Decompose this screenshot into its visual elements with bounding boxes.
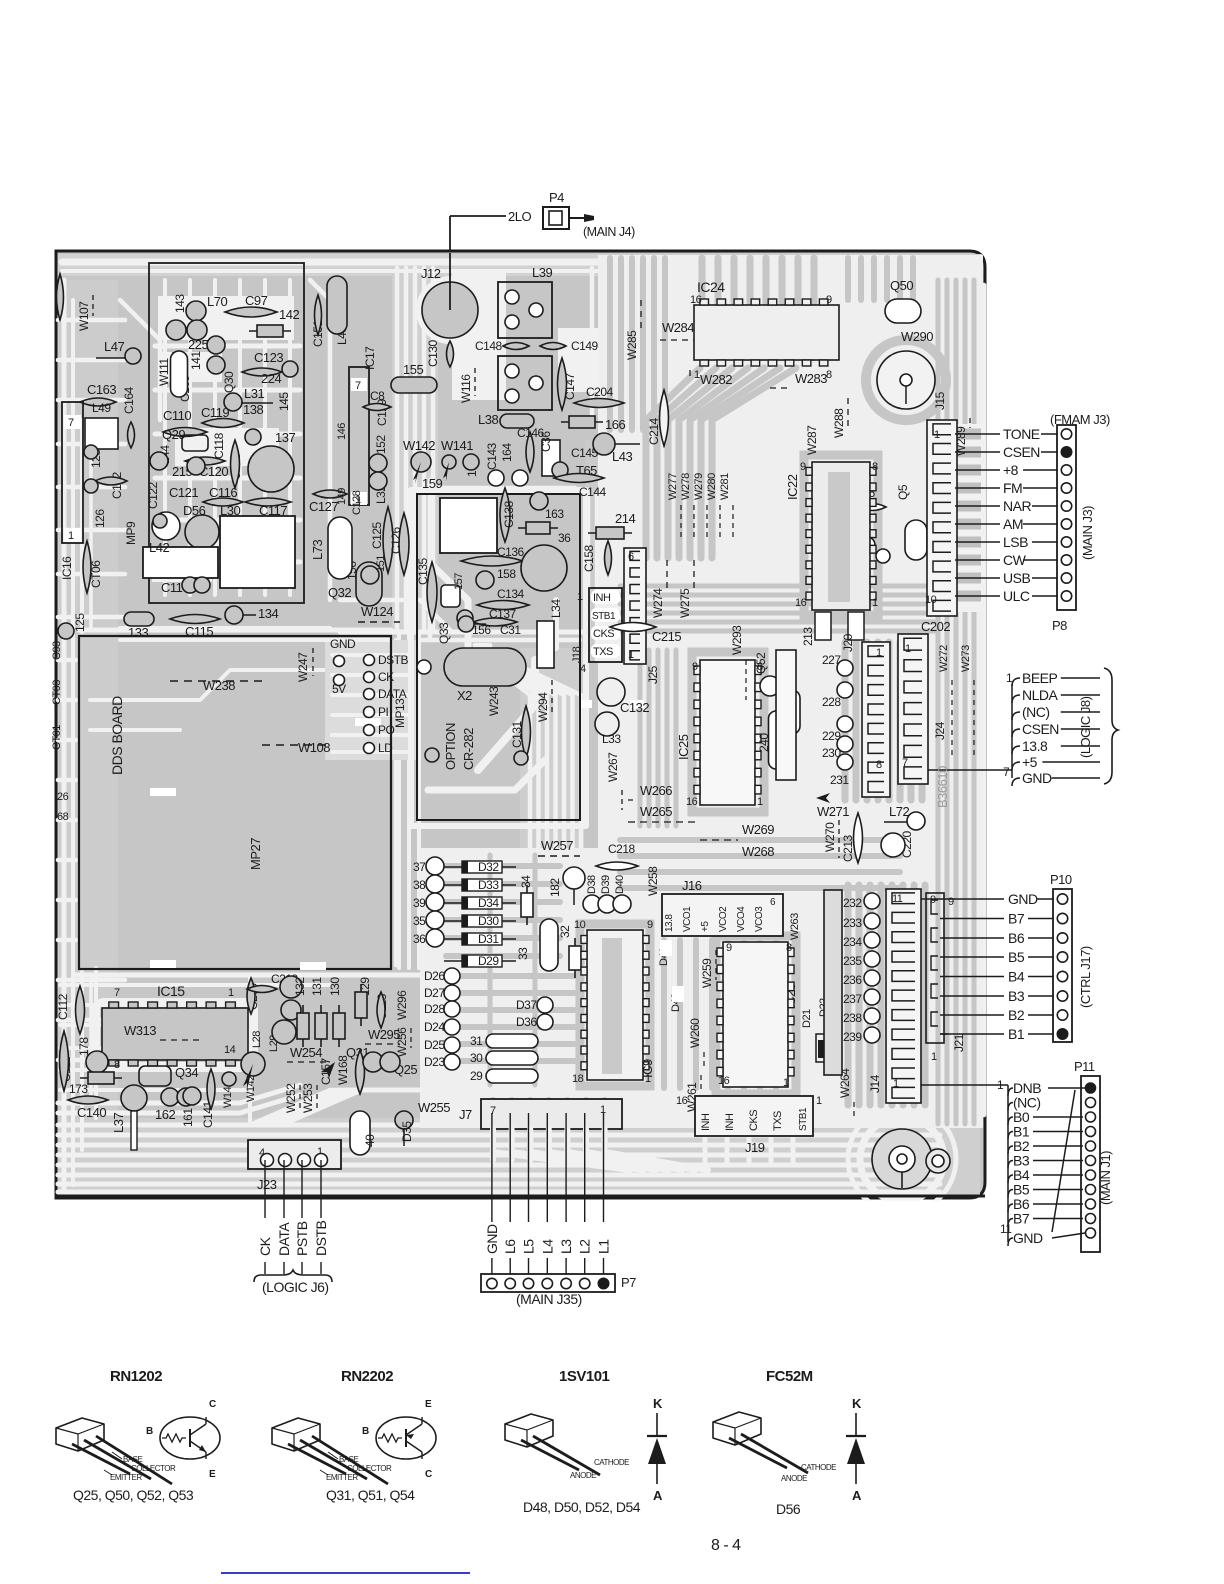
capacitor left edge [57,274,64,320]
svg-text:W313: W313 [124,1023,156,1038]
svg-text:X2: X2 [457,688,472,703]
svg-text:VCO4: VCO4 [736,906,747,932]
svg-text:C128: C128 [351,490,363,515]
resistor block [776,650,796,780]
svg-text:232: 232 [843,896,862,910]
svg-text:C134: C134 [497,587,525,601]
svg-text:L38: L38 [478,412,498,427]
svg-text:C132: C132 [620,700,649,715]
svg-text:39: 39 [413,896,426,910]
svg-text:C137: C137 [489,607,517,621]
wire P11 to board [960,1084,1008,1086]
svg-text:13.8: 13.8 [664,914,675,932]
svg-text:FC52M: FC52M [766,1368,813,1385]
svg-text:NAR: NAR [1003,498,1031,514]
svg-text:B1: B1 [1008,1026,1025,1042]
svg-text:7: 7 [355,380,361,392]
svg-text:D38: D38 [586,875,598,894]
diode D30 [444,920,516,922]
svg-text:CSEN: CSEN [1022,721,1059,737]
svg-text:W278: W278 [680,473,692,500]
svg-text:131: 131 [310,977,324,996]
svg-text:+5: +5 [1022,754,1038,770]
svg-text:J25: J25 [646,665,660,684]
svg-text:INH: INH [700,1113,712,1131]
transistor D56 body [185,515,219,549]
wire J14 to P10 [921,898,940,900]
transistor pads [280,976,302,998]
svg-text:J12: J12 [421,266,441,281]
svg-text:C218: C218 [608,842,636,856]
svg-text:GND: GND [1022,770,1052,786]
footer rule [221,1572,470,1574]
svg-text:J24: J24 [933,721,947,740]
svg-text:W281: W281 [719,473,731,500]
svg-text:146: 146 [336,423,348,440]
svg-text:C163: C163 [87,382,116,397]
svg-text:C138: C138 [502,500,516,528]
svg-text:126: 126 [93,509,107,528]
svg-text:C93: C93 [51,641,63,660]
svg-text:W142: W142 [403,438,435,453]
svg-text:W270: W270 [823,822,837,852]
svg-text:TXS: TXS [593,646,613,658]
svg-text:A: A [852,1488,862,1503]
svg-text:16: 16 [676,1095,688,1107]
wire GND to pin11 [1052,1233,1085,1238]
svg-text:6: 6 [628,551,634,563]
svg-text:BASE: BASE [123,1455,143,1464]
svg-text:DDS BOARD: DDS BOARD [109,696,125,775]
svg-text:C149: C149 [571,339,599,353]
svg-text:D21: D21 [801,1009,813,1028]
svg-text:132: 132 [293,977,307,996]
svg-text:(MAIN J3): (MAIN J3) [1080,506,1095,560]
svg-text:(MAIN J4): (MAIN J4) [583,225,635,239]
svg-text:16: 16 [686,796,698,808]
svg-text:233: 233 [843,916,862,930]
svg-text:D34: D34 [478,896,499,910]
pin L5 [528,1113,530,1222]
svg-text:A: A [653,1488,663,1503]
svg-text:CKS: CKS [593,628,614,640]
svg-text:1: 1 [228,987,234,999]
svg-text:J15: J15 [933,391,947,410]
svg-text:CKS: CKS [748,1110,760,1131]
connector J20 [862,642,890,797]
svg-text:IC24: IC24 [697,279,725,295]
svg-text:C204: C204 [586,385,614,399]
svg-text:(MAIN J1): (MAIN J1) [1098,1151,1113,1205]
svg-text:W274: W274 [651,588,665,618]
svg-text:68: 68 [57,811,69,823]
svg-text:238: 238 [843,1011,862,1025]
brace J8 [1104,668,1118,784]
svg-text:C125: C125 [370,521,384,549]
svg-text:159: 159 [422,476,442,491]
diode D35 [395,1111,413,1129]
svg-text:151: 151 [375,555,387,572]
svg-text:L28: L28 [251,1031,263,1048]
svg-text:C135: C135 [416,557,430,585]
svg-text:142: 142 [279,307,299,322]
svg-text:STB1: STB1 [592,611,616,622]
svg-text:9: 9 [647,919,653,931]
svg-text:143: 143 [173,294,187,313]
svg-text:D33: D33 [478,878,499,892]
svg-text:W255: W255 [418,1100,450,1115]
connector strip J18 right [624,548,646,664]
connector P7 [481,1274,615,1292]
svg-text:W290: W290 [901,329,933,344]
svg-text:1: 1 [876,647,882,659]
svg-text:BASE: BASE [339,1455,359,1464]
svg-text:1SV101: 1SV101 [559,1368,610,1385]
svg-text:L43: L43 [612,449,632,464]
svg-text:W247: W247 [296,652,310,682]
svg-text:36: 36 [413,932,426,946]
jumper W238 [170,680,262,682]
svg-text:1: 1 [577,591,583,603]
wire crossing [1052,1090,1075,1232]
svg-text:W275: W275 [678,588,692,618]
svg-text:14: 14 [224,1044,236,1056]
svg-text:W283: W283 [795,371,827,386]
svg-text:157: 157 [453,573,465,590]
svg-text:CT01: CT01 [51,725,63,750]
svg-text:L4: L4 [539,1239,555,1254]
svg-text:W263: W263 [789,913,801,940]
svg-text:B7: B7 [1013,1211,1030,1227]
svg-text:C127: C127 [309,499,338,514]
connector J23 [248,1140,341,1169]
pad [425,748,439,762]
svg-text:B7: B7 [1008,911,1025,927]
pad [514,751,528,765]
svg-text:J21: J21 [952,1033,966,1052]
resistor 133 [124,612,154,626]
svg-text:P10: P10 [1050,872,1072,887]
svg-text:B3: B3 [1008,988,1025,1004]
svg-text:COLLECTOR: COLLECTOR [347,1464,392,1473]
inductor L42 [143,547,218,578]
light zone center-bottom [420,848,600,1128]
pin L3 [565,1113,567,1222]
svg-text:(LOGIC J6): (LOGIC J6) [262,1279,329,1295]
svg-text:D27: D27 [424,986,445,1000]
diode D32 [444,866,516,868]
svg-text:13.8: 13.8 [1022,738,1048,754]
pin L1 [603,1113,605,1222]
svg-text:156: 156 [472,623,491,637]
svg-text:34: 34 [519,875,533,888]
svg-text:10: 10 [574,919,586,931]
svg-text:37: 37 [413,860,426,874]
module outline top-left [149,263,304,603]
svg-text:B: B [146,1426,153,1437]
svg-text:W284: W284 [662,320,694,335]
svg-text:COLLECTOR: COLLECTOR [131,1464,176,1473]
svg-text:CK: CK [378,670,394,684]
wire 2LO to P4 [450,215,506,217]
pin DSTB [320,1160,322,1218]
svg-text:MP9: MP9 [124,521,138,545]
svg-text:2LO: 2LO [508,209,531,224]
svg-text:8: 8 [114,1059,120,1071]
svg-text:J18: J18 [571,646,583,663]
transistor Q? [248,446,294,492]
svg-text:LD: LD [378,741,393,755]
svg-text:158: 158 [497,567,516,581]
inductor L39 body2 [498,356,552,410]
svg-text:W266: W266 [640,783,672,798]
svg-text:ANODE: ANODE [570,1471,596,1480]
svg-text:Q52: Q52 [754,652,768,674]
svg-text:W108: W108 [298,740,330,755]
svg-text:155: 155 [403,362,423,377]
svg-text:NLDA: NLDA [1022,687,1059,703]
svg-text:L31: L31 [244,386,264,401]
svg-text:E: E [209,1469,216,1480]
svg-text:INH: INH [724,1113,736,1131]
wire J14 pin1 to P11 [921,1084,960,1086]
svg-text:C130: C130 [426,339,440,367]
svg-text:4: 4 [580,663,586,675]
svg-text:L42: L42 [149,540,169,555]
svg-text:J7: J7 [459,1107,472,1122]
svg-text:W296: W296 [395,990,409,1020]
capacitor C117 body [220,516,295,588]
svg-text:W288: W288 [832,408,846,438]
svg-text:C: C [209,1399,216,1410]
svg-text:W280: W280 [706,473,718,500]
page area below board [0,1201,992,1229]
svg-text:IC15: IC15 [157,983,185,999]
svg-text:18: 18 [572,1073,584,1085]
svg-text:IC22: IC22 [785,474,800,500]
svg-text:+8: +8 [1003,462,1019,478]
svg-text:31: 31 [470,1034,483,1048]
svg-text:214: 214 [615,511,635,526]
svg-text:7: 7 [68,417,74,429]
svg-text:W285: W285 [625,330,639,360]
svg-text:1: 1 [757,796,763,808]
svg-text:138: 138 [243,402,263,417]
svg-text:W272: W272 [938,645,950,672]
svg-text:C118: C118 [212,432,226,459]
inner square OPTION [440,498,497,553]
svg-text:35: 35 [413,914,426,928]
svg-text:CSEN: CSEN [1003,444,1040,460]
connector J21 [926,893,944,1043]
svg-text:26: 26 [57,791,69,803]
PCB board outline [56,251,985,1198]
svg-text:INH: INH [593,592,611,604]
svg-text:1: 1 [628,649,634,661]
pin L2 [584,1113,586,1222]
wire J7 pin fans [493,1129,605,1160]
pin PSTB [301,1160,303,1218]
svg-text:W253: W253 [301,1083,315,1113]
svg-text:7: 7 [1003,765,1010,779]
svg-text:W259: W259 [700,958,714,988]
IC IC9 body [587,930,643,1080]
svg-text:10: 10 [925,594,937,606]
svg-text:W111: W111 [157,358,171,386]
connector J24 [898,634,928,784]
capacitor C135 [427,562,437,622]
svg-text:P11: P11 [1074,1059,1095,1074]
transistor symbol RN2202 [376,1417,436,1459]
resistor 158 [476,571,494,589]
svg-text:182: 182 [548,878,562,897]
svg-text:C97: C97 [245,293,268,308]
svg-text:RN2202: RN2202 [341,1368,393,1385]
svg-text:149: 149 [336,488,348,505]
svg-text:32: 32 [558,925,572,938]
svg-text:W271: W271 [817,804,849,819]
svg-text:VCO2: VCO2 [718,906,729,932]
connector J7 [481,1099,622,1129]
svg-text:29: 29 [470,1069,483,1083]
mounting hole small [926,1149,950,1173]
svg-text:9: 9 [948,896,954,908]
svg-text:213: 213 [801,627,815,646]
inductor L34 [537,621,554,668]
svg-text:(NC): (NC) [1022,704,1050,720]
module OPTION CR-282 outline [417,494,580,820]
svg-text:Q31, Q51, Q54: Q31, Q51, Q54 [326,1487,415,1503]
svg-text:C8: C8 [370,389,385,403]
svg-text:W265: W265 [640,804,672,819]
svg-text:30: 30 [470,1051,483,1065]
svg-text:L47: L47 [104,339,124,354]
svg-text:PSTB: PSTB [294,1221,310,1256]
svg-text:162: 162 [155,1107,175,1122]
transistor symbol RN1202 [160,1417,220,1459]
svg-text:GND: GND [484,1224,500,1254]
svg-text:9: 9 [826,294,832,306]
resistor 163 [530,492,548,510]
svg-text:Q5: Q5 [896,484,910,500]
svg-text:L70: L70 [207,294,227,309]
svg-text:W268: W268 [742,844,774,859]
svg-text:C131: C131 [510,720,524,748]
svg-text:7: 7 [902,757,908,769]
svg-text:141: 141 [189,351,203,370]
svg-text:234: 234 [843,935,862,949]
svg-text:236: 236 [843,973,862,987]
arrow W [321,1062,335,1078]
svg-text:C121: C121 [169,485,198,500]
connector J16 [662,894,783,936]
svg-text:C123: C123 [254,350,283,365]
svg-text:164: 164 [500,443,514,462]
capacitor C136 [461,556,523,566]
svg-text:237: 237 [843,992,862,1006]
svg-text:228: 228 [822,695,841,709]
svg-text:W267: W267 [606,752,620,782]
svg-text:C202: C202 [921,619,950,634]
svg-text:J16: J16 [682,878,702,893]
svg-text:D37: D37 [516,998,537,1012]
connector strip mid [349,367,369,505]
svg-text:W141: W141 [441,438,473,453]
svg-text:W124: W124 [361,604,393,619]
svg-text:8: 8 [876,759,882,771]
svg-text:L73: L73 [310,540,325,560]
svg-text:36: 36 [558,531,571,545]
svg-text:J14: J14 [868,1074,882,1093]
svg-text:D56: D56 [776,1501,801,1517]
svg-text:K: K [653,1396,663,1411]
svg-text:DSTB: DSTB [313,1221,329,1257]
svg-text:STB1: STB1 [798,1107,809,1131]
svg-text:8: 8 [786,942,792,954]
resistor 40 [350,1111,370,1155]
svg-text:ULC: ULC [1003,588,1030,604]
svg-text:1: 1 [931,1051,937,1063]
svg-text:W256: W256 [395,1027,409,1057]
wire DNB [1048,1087,1085,1089]
svg-text:TONE: TONE [1003,426,1040,442]
svg-text:DATA: DATA [276,1222,292,1256]
svg-text:8: 8 [872,461,878,473]
svg-text:P7: P7 [621,1275,636,1290]
svg-text:Q34: Q34 [175,1065,198,1080]
svg-text:D48, D50, D52, D54: D48, D50, D52, D54 [523,1499,641,1515]
svg-text:W269: W269 [742,822,774,837]
svg-text:C144: C144 [579,485,607,499]
svg-text:L2: L2 [577,1239,593,1254]
svg-text:L72: L72 [889,804,909,819]
svg-text:BEEP: BEEP [1022,670,1058,686]
svg-text:L3: L3 [558,1239,574,1254]
svg-text:(CTRL J17): (CTRL J17) [1078,946,1093,1008]
svg-text:CK: CK [257,1236,273,1256]
svg-text:D29: D29 [478,954,499,968]
wire traces [58,254,982,1196]
svg-text:GND: GND [330,637,356,651]
svg-text:161: 161 [181,1108,195,1127]
svg-text:134: 134 [258,606,278,621]
svg-text:CR-282: CR-282 [461,728,476,770]
svg-text:16: 16 [718,1075,730,1087]
svg-text:(LOGIC J8): (LOGIC J8) [1078,696,1093,758]
svg-text:1: 1 [893,1078,899,1090]
svg-text:L5: L5 [521,1239,537,1254]
svg-text:1: 1 [816,1095,822,1107]
capacitor C134 [477,601,529,610]
svg-text:8 - 4: 8 - 4 [711,1537,741,1554]
svg-text:D26: D26 [424,969,445,983]
svg-text:W273: W273 [960,645,972,672]
svg-text:40: 40 [363,1134,377,1147]
svg-text:RN1202: RN1202 [110,1368,162,1385]
svg-text:VCO1: VCO1 [682,906,693,932]
svg-text:225: 225 [188,337,208,352]
svg-text:L49: L49 [92,401,111,415]
pin CK [264,1160,266,1218]
DDS BOARD outline [79,636,391,969]
svg-text:CATHODE: CATHODE [801,1463,836,1472]
svg-text:W258: W258 [646,866,660,896]
svg-text:B36610: B36610 [935,766,950,808]
svg-text:9: 9 [726,942,732,954]
brace LOGIC J6 [254,1270,332,1282]
svg-text:W279: W279 [693,473,705,500]
svg-text:33: 33 [516,947,530,960]
